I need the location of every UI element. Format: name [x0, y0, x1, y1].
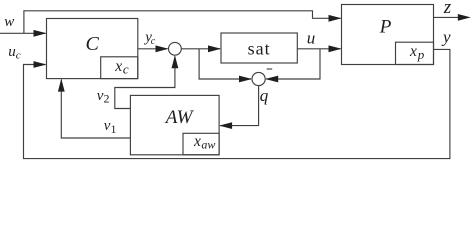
minus sign at S2: [267, 68, 273, 70]
label y_c: [143, 30, 155, 47]
arrowhead v1 into C: [58, 79, 65, 92]
label x_p: [409, 43, 425, 62]
arrowhead z output: [458, 14, 471, 21]
wire v2 AW to S1: [115, 56, 175, 108]
svg-text:C: C: [86, 33, 100, 55]
arrowhead w into P: [329, 15, 342, 22]
wire y_c: [138, 48, 168, 50]
label y: [441, 28, 451, 47]
wire u sat to P: [297, 48, 340, 50]
svg-text:q: q: [260, 86, 269, 105]
wire z output: [434, 16, 460, 18]
svg-text:y: y: [441, 28, 451, 47]
wire q S2 to AW: [220, 86, 259, 126]
arrowhead q into AW: [219, 122, 232, 129]
state box x_p: [396, 42, 434, 64]
label z: [443, 0, 452, 18]
label x_c: [114, 58, 129, 77]
svg-text:P: P: [379, 17, 392, 38]
arrowhead into sat: [208, 45, 221, 52]
svg-text:u: u: [307, 28, 316, 47]
label script AW: [164, 107, 195, 128]
svg-text:w: w: [4, 14, 14, 30]
block C: [47, 19, 138, 79]
block P: [342, 5, 434, 65]
label v1: [104, 118, 117, 136]
arrowhead into S2 left: [239, 76, 252, 83]
state box x_aw: [183, 133, 219, 155]
label sat: [248, 39, 271, 59]
wire v1 AW to C: [61, 80, 130, 138]
arrowhead w into C: [34, 30, 47, 37]
svg-text:AW: AW: [164, 107, 195, 128]
state box x_c: [101, 57, 138, 79]
svg-text:z: z: [443, 0, 452, 18]
arrowhead v2 into S1: [172, 55, 179, 68]
label q: [260, 86, 269, 105]
label w: [4, 14, 14, 30]
summing junction S1: [169, 42, 182, 55]
summing junction S2: [252, 72, 265, 85]
wire y feedback loop: [24, 49, 450, 158]
wire u branch to S2 right: [266, 49, 320, 79]
wire branch to S2 left: [199, 49, 251, 79]
arrowhead into S2 right: [265, 76, 278, 83]
arrowhead y_c into S1: [156, 45, 169, 52]
arrowhead u into P: [329, 45, 342, 52]
label x_aw: [193, 133, 215, 152]
svg-text:sat: sat: [248, 39, 271, 59]
label u_c: [8, 44, 21, 62]
wire w feedforward to P: [24, 11, 341, 34]
label u: [307, 28, 316, 47]
arrowhead u_c into C: [34, 61, 47, 68]
block AW: [130, 95, 219, 154]
wire w input: [0, 32, 46, 34]
wire S1 to sat: [181, 48, 220, 50]
label script P: [379, 17, 392, 38]
label script C: [86, 33, 100, 55]
label v2: [97, 88, 110, 106]
block sat: [221, 33, 297, 63]
